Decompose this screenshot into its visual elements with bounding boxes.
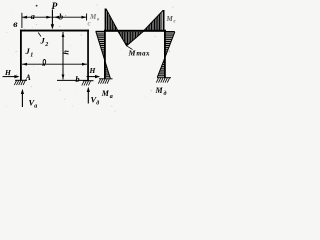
svg-text:д: д xyxy=(164,90,167,97)
svg-text:а: а xyxy=(110,94,113,100)
svg-text:M: M xyxy=(128,48,137,57)
svg-text:b: b xyxy=(59,13,63,22)
svg-text:M: M xyxy=(101,89,110,98)
svg-text:H: H xyxy=(4,68,12,77)
svg-text:2: 2 xyxy=(44,42,48,48)
svg-text:M: M xyxy=(166,15,174,23)
svg-text:д: д xyxy=(96,100,99,107)
svg-text:A: A xyxy=(25,73,32,82)
svg-text:в: в xyxy=(13,20,18,30)
svg-text:1: 1 xyxy=(30,53,33,59)
svg-text:max: max xyxy=(136,51,150,58)
svg-text:b: b xyxy=(75,74,79,84)
svg-text:а: а xyxy=(34,104,37,110)
svg-text:a: a xyxy=(31,12,35,21)
svg-text:M: M xyxy=(89,13,97,21)
svg-text:h: h xyxy=(62,50,71,55)
svg-text:H: H xyxy=(89,66,97,75)
